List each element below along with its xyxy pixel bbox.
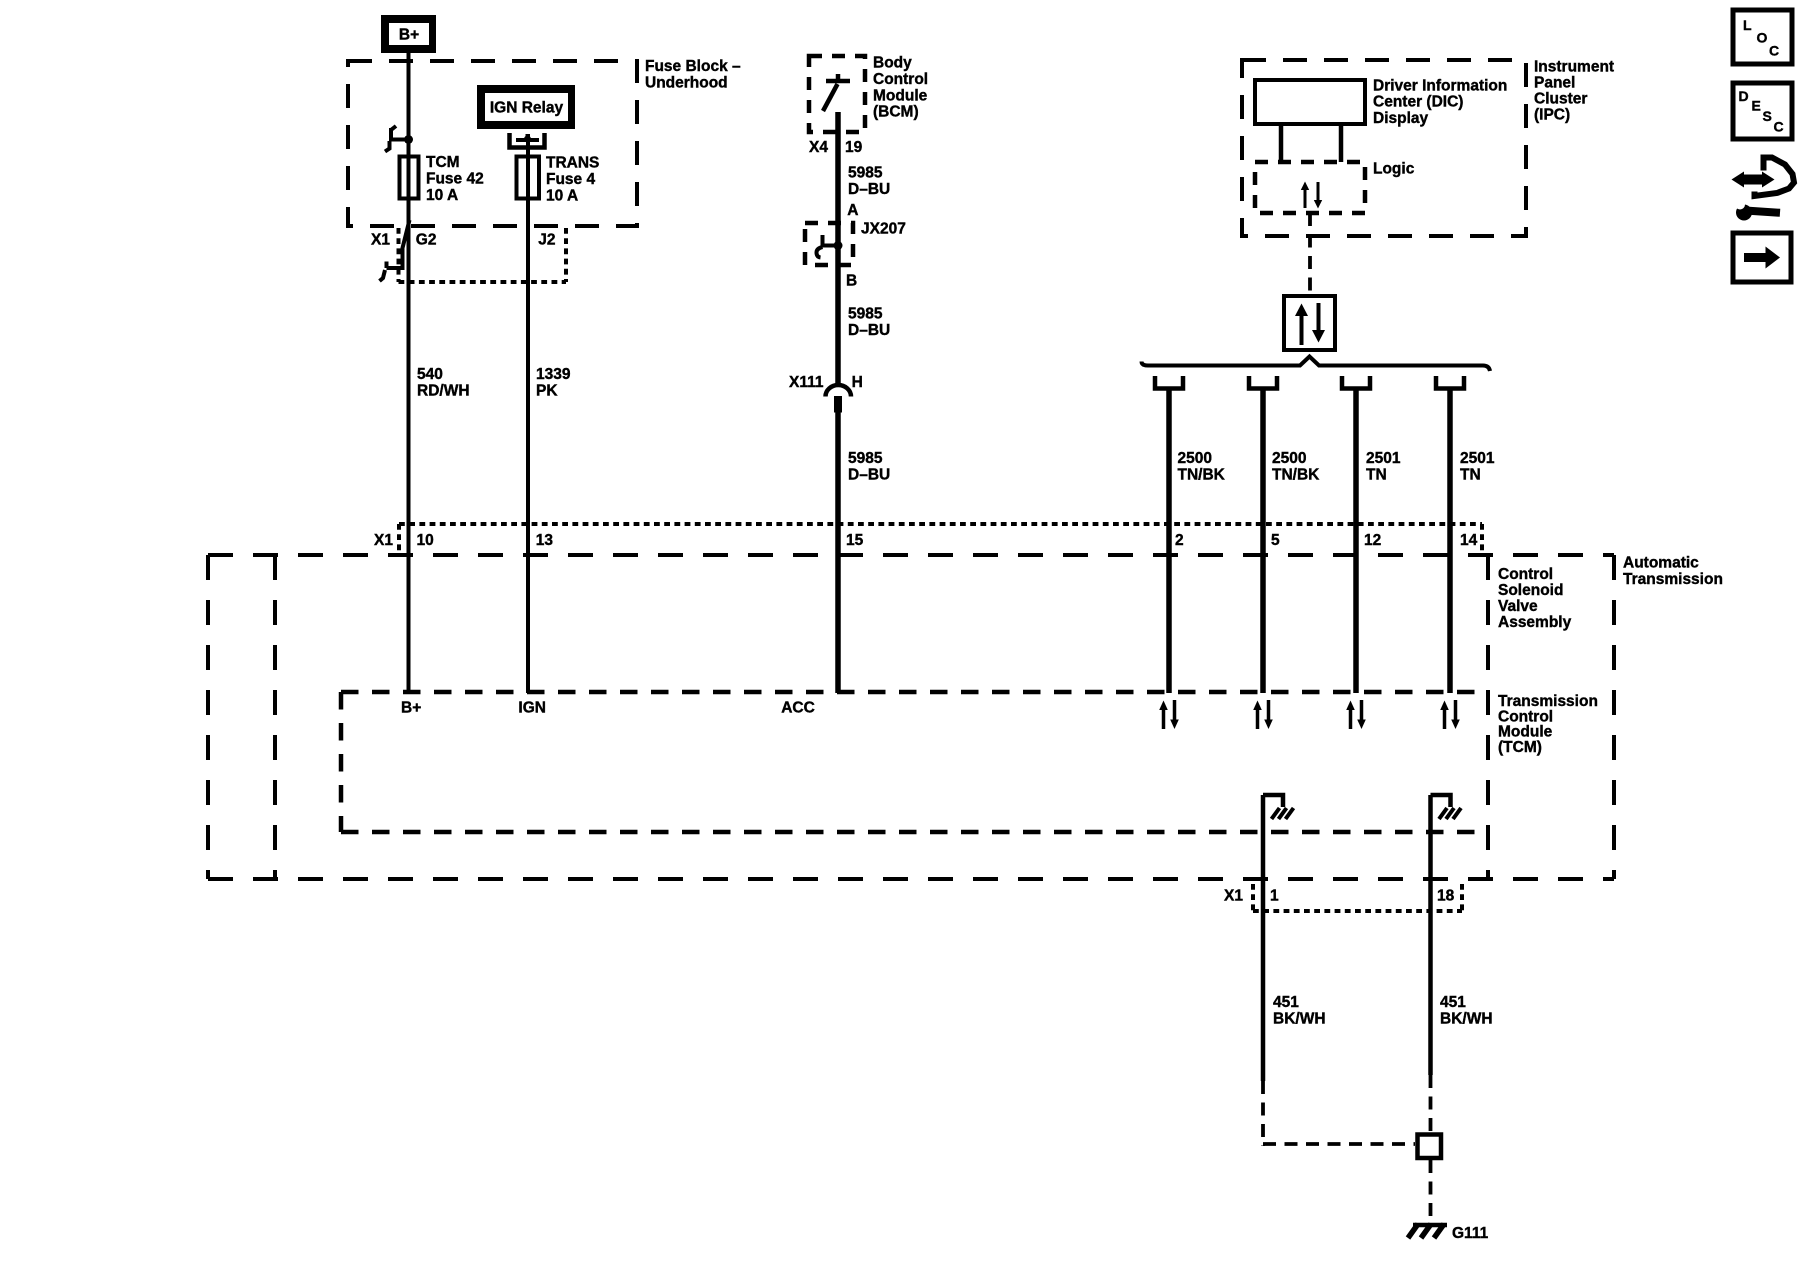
svg-text:BK/WH: BK/WH (1273, 1010, 1326, 1027)
svg-text:TN: TN (1366, 467, 1387, 484)
svg-text:19: 19 (845, 139, 863, 156)
svg-text:Fuse 42: Fuse 42 (426, 171, 484, 188)
svg-text:15: 15 (846, 532, 864, 549)
svg-text:B+: B+ (399, 27, 419, 44)
svg-text:1339: 1339 (536, 366, 571, 383)
svg-text:X4: X4 (809, 139, 828, 156)
svg-text:10 A: 10 A (426, 187, 458, 204)
svg-text:B+: B+ (401, 700, 421, 717)
svg-text:Driver Information: Driver Information (1373, 77, 1507, 94)
svg-text:10 A: 10 A (546, 188, 578, 205)
svg-text:ACC: ACC (781, 700, 815, 717)
svg-text:(TCM): (TCM) (1498, 739, 1542, 756)
svg-text:5985: 5985 (848, 450, 883, 467)
svg-text:451: 451 (1273, 994, 1299, 1011)
svg-text:Underhood: Underhood (645, 75, 728, 92)
svg-text:5: 5 (1271, 532, 1280, 549)
svg-text:2501: 2501 (1460, 450, 1495, 467)
svg-text:5985: 5985 (848, 164, 883, 181)
svg-text:Fuse Block –: Fuse Block – (645, 58, 741, 75)
svg-text:D–BU: D–BU (848, 181, 890, 198)
svg-text:Assembly: Assembly (1498, 614, 1572, 631)
svg-text:(BCM): (BCM) (873, 104, 919, 121)
svg-text:12: 12 (1364, 532, 1381, 549)
svg-text:2500: 2500 (1178, 450, 1212, 467)
svg-text:Solenoid: Solenoid (1498, 582, 1563, 599)
svg-text:PK: PK (536, 383, 558, 400)
svg-text:Automatic: Automatic (1623, 555, 1699, 572)
svg-text:2501: 2501 (1366, 450, 1401, 467)
svg-text:Display: Display (1373, 110, 1429, 127)
svg-text:TCM: TCM (426, 154, 460, 171)
svg-text:IGN: IGN (518, 700, 546, 717)
svg-text:13: 13 (536, 532, 554, 549)
svg-text:10: 10 (417, 532, 434, 549)
svg-text:D–BU: D–BU (848, 467, 890, 484)
svg-text:Fuse 4: Fuse 4 (546, 171, 595, 188)
svg-text:Instrument: Instrument (1534, 59, 1614, 76)
svg-text:C: C (1774, 119, 1784, 135)
svg-text:TRANS: TRANS (546, 155, 599, 172)
svg-text:2500: 2500 (1272, 450, 1306, 467)
svg-text:TN/BK: TN/BK (1178, 467, 1226, 484)
svg-text:B: B (846, 273, 857, 290)
svg-text:18: 18 (1437, 887, 1455, 904)
svg-text:Control: Control (873, 71, 928, 88)
svg-text:Module: Module (873, 87, 928, 104)
svg-text:BK/WH: BK/WH (1440, 1010, 1493, 1027)
svg-text:D–BU: D–BU (848, 322, 890, 339)
svg-text:Panel: Panel (1534, 75, 1575, 92)
svg-text:RD/WH: RD/WH (417, 383, 470, 400)
svg-text:X1: X1 (371, 231, 390, 248)
svg-text:5985: 5985 (848, 306, 883, 323)
svg-text:2: 2 (1175, 532, 1184, 549)
svg-text:Center (DIC): Center (DIC) (1373, 94, 1463, 111)
svg-text:G111: G111 (1452, 1225, 1489, 1242)
svg-text:G2: G2 (416, 231, 437, 248)
svg-text:E: E (1752, 98, 1761, 114)
svg-text:X1: X1 (1224, 887, 1243, 904)
svg-text:JX207: JX207 (861, 220, 906, 237)
svg-text:X111: X111 (789, 374, 824, 391)
svg-text:14: 14 (1460, 532, 1478, 549)
svg-text:J2: J2 (538, 231, 555, 248)
svg-text:O: O (1757, 30, 1768, 46)
svg-text:A: A (847, 202, 858, 219)
svg-text:Valve: Valve (1498, 598, 1538, 615)
svg-text:L: L (1743, 17, 1752, 33)
svg-text:S: S (1763, 108, 1772, 124)
svg-text:(IPC): (IPC) (1534, 107, 1570, 124)
svg-text:X1: X1 (374, 532, 393, 549)
svg-text:Transmission: Transmission (1623, 571, 1723, 588)
svg-text:Control: Control (1498, 566, 1553, 583)
svg-text:Cluster: Cluster (1534, 91, 1587, 108)
svg-text:540: 540 (417, 366, 443, 383)
svg-text:C: C (1769, 43, 1779, 59)
svg-text:Body: Body (873, 54, 912, 71)
svg-text:451: 451 (1440, 994, 1466, 1011)
svg-text:D: D (1739, 88, 1749, 104)
svg-text:IGN Relay: IGN Relay (490, 100, 564, 117)
svg-text:Logic: Logic (1373, 160, 1415, 177)
svg-text:H: H (852, 374, 863, 391)
svg-text:TN/BK: TN/BK (1272, 467, 1320, 484)
svg-text:TN: TN (1460, 467, 1481, 484)
svg-text:1: 1 (1270, 887, 1279, 904)
